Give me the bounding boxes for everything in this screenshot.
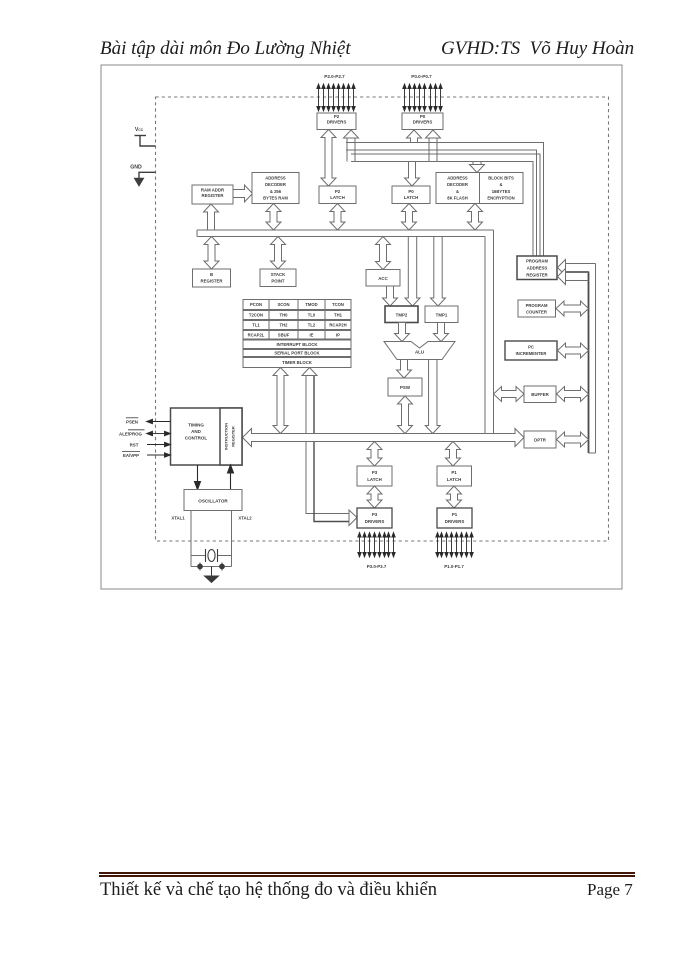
arrow bus to RAM <box>266 204 281 231</box>
svg-text:DRIVERS: DRIVERS <box>327 120 347 125</box>
ALU <box>384 342 455 360</box>
svg-text:P0.0-P0.7: P0.0-P0.7 <box>411 74 432 79</box>
Vcc supply symbol <box>135 136 156 147</box>
arrow bus to flash decoder <box>468 204 483 231</box>
svg-text:TH0: TH0 <box>280 313 289 318</box>
box BLOCK BITS 16BYTES ENCRYPTION <box>480 173 524 204</box>
svg-text:P3: P3 <box>372 470 378 475</box>
arrow DPTR to program bus <box>557 432 589 447</box>
arrow PC incrementer to program bus <box>558 343 589 358</box>
svg-text:ADDRESS: ADDRESS <box>527 266 548 271</box>
svg-text:PCON: PCON <box>250 302 262 307</box>
svg-text:TH2: TH2 <box>280 323 289 328</box>
svg-text:LATCH: LATCH <box>404 195 419 200</box>
box P3 DRIVERS <box>357 508 392 528</box>
box BUFFER <box>524 386 556 403</box>
svg-text:8K FLASH: 8K FLASH <box>447 196 467 201</box>
arrow bus to stack pointer <box>271 237 286 270</box>
box P3 LATCH <box>357 466 392 486</box>
crystal XTAL <box>206 549 218 562</box>
arrow P1 latch to P1 drivers <box>447 486 462 508</box>
box P0 LATCH <box>392 186 430 204</box>
box PSW <box>388 378 422 396</box>
svg-text:AND: AND <box>191 429 201 434</box>
svg-text:DRIVERS: DRIVERS <box>365 519 385 524</box>
arrow program bus to PAR lower <box>558 269 589 285</box>
arrow oscillator to timing <box>228 465 234 490</box>
channel SFR table to port3 drivers <box>302 368 357 526</box>
arrow H2 down into flash decoder <box>470 162 485 173</box>
svg-text:B: B <box>210 272 213 277</box>
svg-text:RCAP2H: RCAP2H <box>329 323 346 328</box>
svg-text:TMP1: TMP1 <box>436 312 448 317</box>
GND symbol <box>135 172 156 185</box>
bus channel down to buffer and data bus <box>484 237 486 434</box>
svg-text:16BYTES: 16BYTES <box>492 189 511 194</box>
svg-text:P1: P1 <box>452 512 458 517</box>
svg-text:DECODER: DECODER <box>447 182 468 187</box>
svg-text:INTERRUPT BLOCK: INTERRUPT BLOCK <box>276 342 318 347</box>
footer text left <box>100 880 437 901</box>
port 1 pin arrows <box>436 533 473 558</box>
outer diagram frame <box>101 65 622 589</box>
svg-text:& 256: & 256 <box>270 189 282 194</box>
svg-text:POINT: POINT <box>271 278 285 283</box>
arrow H2 up to P2 drivers <box>344 130 359 162</box>
svg-text:DRIVERS: DRIVERS <box>413 120 433 125</box>
arrow data bus to P3 latch <box>367 442 382 467</box>
svg-text:ACC: ACC <box>378 276 388 281</box>
svg-text:TIMING: TIMING <box>188 422 204 427</box>
ground symbol <box>205 567 219 583</box>
arrow timing to oscillator <box>195 465 201 490</box>
svg-text:PROGRAM: PROGRAM <box>526 259 548 264</box>
svg-text:IE: IE <box>310 332 314 337</box>
box PROGRAM COUNTER <box>518 300 556 317</box>
svg-text:REGISTER: REGISTER <box>526 273 547 278</box>
footer rule <box>99 872 635 874</box>
svg-text:INCREMENTER: INCREMENTER <box>516 351 547 356</box>
box P2 DRIVERS <box>317 113 356 130</box>
header GVHD right <box>441 38 634 60</box>
box PC INCREMENTER <box>505 341 557 360</box>
capacitor left <box>198 563 203 571</box>
arrow bus to B register <box>204 237 219 270</box>
box P1 DRIVERS <box>437 508 472 528</box>
bus band H1 from drivers to program address register <box>346 143 544 257</box>
svg-text:&: & <box>499 182 502 187</box>
box TMP1 <box>425 306 458 323</box>
svg-text:DRIVERS: DRIVERS <box>445 519 465 524</box>
svg-text:XTAL2: XTAL2 <box>238 516 252 521</box>
box OSCILLATOR <box>184 490 242 511</box>
svg-text:PROGRAM: PROGRAM <box>526 303 548 308</box>
svg-text:INSTRUCTION: INSTRUCTION <box>224 423 229 450</box>
svg-text:BYTES RAM: BYTES RAM <box>263 196 288 201</box>
svg-text:SBUF: SBUF <box>278 332 290 337</box>
arrow ACC to TMP2 <box>383 286 398 306</box>
box TMP2 <box>385 306 418 323</box>
svg-text:EA/VPP: EA/VPP <box>123 453 139 458</box>
svg-text:ALE/PROG: ALE/PROG <box>119 431 143 436</box>
box ADDRESS DECODER 8K FLASH <box>436 173 480 204</box>
svg-text:LATCH: LATCH <box>330 195 345 200</box>
footer page number <box>587 880 633 900</box>
box B REGISTER <box>193 269 231 287</box>
special function register table <box>243 300 351 368</box>
svg-text:TL1: TL1 <box>252 323 260 328</box>
svg-text:OSCILLATOR: OSCILLATOR <box>198 498 228 503</box>
arrow H2 down to P0 latch <box>405 162 420 187</box>
svg-text:P3: P3 <box>372 512 378 517</box>
arrow ALU to PSW <box>397 360 412 379</box>
program bus vertical bar <box>589 264 596 454</box>
svg-text:ENCRYPTION: ENCRYPTION <box>487 196 514 201</box>
box DPTR <box>524 431 556 448</box>
svg-text:RAM ADDR: RAM ADDR <box>201 188 225 193</box>
svg-text:DPTR: DPTR <box>534 438 547 443</box>
arrow TMP1 to ALU <box>434 323 449 342</box>
svg-text:ALU: ALU <box>415 350 424 355</box>
arrow PSW to data bus <box>398 396 413 434</box>
svg-text:REGISTER: REGISTER <box>231 426 236 447</box>
arrow RAM ADDR to RAM <box>233 185 253 202</box>
svg-text:P2.0-P2.7: P2.0-P2.7 <box>324 74 345 79</box>
svg-text:STACK: STACK <box>271 272 286 277</box>
svg-text:PSW: PSW <box>400 385 411 390</box>
svg-text:RST: RST <box>130 443 139 448</box>
svg-text:BLOCK BITS: BLOCK BITS <box>488 176 514 181</box>
box STACK POINT <box>260 269 296 287</box>
box P1 LATCH <box>437 466 472 486</box>
svg-text:&: & <box>456 189 459 194</box>
svg-text:TMP2: TMP2 <box>396 312 408 317</box>
svg-text:P3.0-P3.7: P3.0-P3.7 <box>367 564 387 569</box>
dashed chip boundary <box>156 97 609 541</box>
arrow bus to P2 latch <box>330 204 345 231</box>
channel bus to TMP1 <box>431 237 446 307</box>
box P0 DRIVERS <box>402 113 443 130</box>
svg-text:P2: P2 <box>334 114 340 119</box>
svg-text:P0: P0 <box>420 114 426 119</box>
svg-text:TCON: TCON <box>332 302 344 307</box>
box TIMING AND CONTROL with INSTRUCTION REGISTER <box>171 408 243 465</box>
svg-text:RCAP2L: RCAP2L <box>248 332 265 337</box>
channel ALU down to data bus <box>425 360 440 434</box>
svg-text:VCC: VCC <box>135 127 144 133</box>
box ACC <box>366 270 400 287</box>
arrow data bus to P1 latch <box>446 442 461 467</box>
svg-text:REGISTER: REGISTER <box>201 278 224 283</box>
svg-text:IP: IP <box>336 332 340 337</box>
svg-text:LATCH: LATCH <box>447 477 462 482</box>
arrow H2 up to P0 drivers crossing H1 <box>426 130 441 162</box>
box PROGRAM ADDRESS REGISTER <box>517 256 557 280</box>
crystal circuit wires <box>191 511 232 567</box>
arrow SFR table to data bus <box>273 368 288 434</box>
svg-text:ADDRESS: ADDRESS <box>265 176 286 181</box>
svg-text:PC: PC <box>528 344 534 349</box>
arrow bus to ACC <box>376 237 391 270</box>
header title left <box>100 38 351 60</box>
channel bus to TMP2 <box>405 237 420 307</box>
svg-text:XTAL1: XTAL1 <box>171 516 185 521</box>
svg-text:LATCH: LATCH <box>367 477 382 482</box>
svg-text:TL2: TL2 <box>308 323 316 328</box>
arrow buffer to program bus <box>557 387 589 402</box>
arrow bus to P0 latch <box>402 204 417 231</box>
svg-text:PSEN: PSEN <box>126 419 138 424</box>
box P2 LATCH <box>319 186 356 204</box>
main internal bus upper <box>197 230 494 237</box>
svg-text:COUNTER: COUNTER <box>526 309 547 314</box>
svg-text:P0: P0 <box>408 189 414 194</box>
arrow program counter to program bus <box>556 301 589 316</box>
svg-text:TL0: TL0 <box>308 313 316 318</box>
arrow P3 latch to P3 drivers <box>367 486 382 508</box>
arrow H1 up to P0 drivers <box>407 130 422 143</box>
svg-text:CONTROL: CONTROL <box>185 436 207 441</box>
box ADDRESS DECODER 256 BYTES RAM <box>252 173 299 204</box>
svg-text:TIMER BLOCK: TIMER BLOCK <box>282 360 313 365</box>
bus band H2 lower <box>351 154 540 256</box>
arrow TMP2 to ALU <box>395 323 410 342</box>
svg-text:SCON: SCON <box>277 302 289 307</box>
svg-text:P1: P1 <box>451 470 457 475</box>
port 3 pin arrows <box>358 533 395 558</box>
svg-text:TH1: TH1 <box>334 313 343 318</box>
svg-text:GND: GND <box>130 165 142 171</box>
arrow buffer to channel B <box>494 387 525 402</box>
box RAM ADDR REGISTER <box>192 185 233 204</box>
svg-text:TMOD: TMOD <box>305 302 317 307</box>
svg-text:DECODER: DECODER <box>265 182 286 187</box>
svg-text:REGISTER: REGISTER <box>202 193 225 198</box>
arrow program bus to PAR upper <box>558 260 596 276</box>
capacitor right <box>220 563 225 571</box>
svg-text:SERIAL PORT BLOCK: SERIAL PORT BLOCK <box>274 351 320 356</box>
arrow P2 drivers to P2 latch <box>321 130 336 187</box>
port 0 pin arrows <box>403 84 442 111</box>
svg-text:T2CON: T2CON <box>249 313 263 318</box>
arrow bus to RAM ADDR REGISTER <box>204 204 219 230</box>
svg-text:ADDRESS: ADDRESS <box>447 176 468 181</box>
svg-text:P2: P2 <box>335 189 341 194</box>
main internal data bus lower <box>243 429 525 447</box>
svg-text:BUFFER: BUFFER <box>531 392 549 397</box>
svg-text:P1.0-P1.7: P1.0-P1.7 <box>444 564 464 569</box>
port 2 pin arrows <box>317 84 355 111</box>
